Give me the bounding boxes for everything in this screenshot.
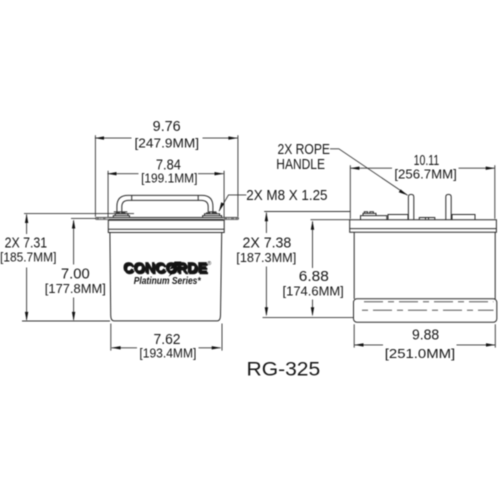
- dim 9.88 extension lines: [354, 324, 495, 347]
- svg-text:6.88: 6.88: [299, 269, 329, 285]
- dim 7.00 arrows: [72, 219, 75, 321]
- dim 7.62 line: [112, 347, 221, 349]
- bottom ref line right view: [263, 317, 354, 319]
- body sides: [354, 232, 495, 299]
- dim 2X 7.31 arrows: [25, 214, 28, 321]
- dim 7.84 extension lines: [108, 171, 224, 218]
- svg-text:CONCORDE: CONCORDE: [123, 261, 207, 277]
- dim 7.62 arrows: [112, 346, 221, 349]
- dim 7.84 line: [107, 173, 223, 175]
- svg-text:2X ROPE: 2X ROPE: [278, 142, 331, 158]
- CONCORDE logo: [123, 260, 211, 287]
- dim 7.62 extension lines: [111, 324, 222, 351]
- svg-text:[256.7MM]: [256.7MM]: [394, 166, 456, 181]
- dim 2X 7.38 top ref line: [264, 211, 350, 213]
- dim 10.11 line: [350, 167, 495, 169]
- dim 9.76 line: [95, 137, 238, 139]
- label dash-dot lines: [364, 301, 494, 303]
- battery jar: [110, 233, 222, 321]
- dim 2X 7.38 line: [265, 213, 267, 315]
- dim 9.88 arrows: [354, 343, 495, 346]
- svg-text:[199.1MM]: [199.1MM]: [141, 171, 197, 186]
- dim 9.76 extension lines: [95, 135, 238, 217]
- dim 2X 7.31 top ref line: [24, 213, 134, 215]
- lid seam: [350, 228, 497, 230]
- vent cap left: [388, 215, 408, 220]
- dim 6.88 line: [312, 222, 314, 315]
- dim 10.11 extension lines: [350, 165, 495, 219]
- leader 2X ROPE HANDLE: [330, 149, 408, 196]
- svg-text:[251.0MM]: [251.0MM]: [385, 346, 455, 361]
- rope handle post left: [408, 194, 413, 219]
- svg-text:[187.3MM]: [187.3MM]: [236, 250, 296, 265]
- carry handle: [114, 195, 217, 212]
- dim 6.88 arrows: [311, 221, 314, 317]
- svg-text:9.88: 9.88: [412, 327, 439, 343]
- dim 6.88 top ref line: [311, 219, 351, 221]
- svg-text:®: ®: [207, 260, 211, 267]
- bottom ref line left view: [22, 320, 110, 322]
- terminal right (front view): [203, 213, 222, 218]
- battery flange band: [96, 218, 239, 220]
- svg-text:[193.4MM]: [193.4MM]: [139, 346, 196, 361]
- battery cover (lid): [108, 220, 224, 232]
- svg-text:[247.9MM]: [247.9MM]: [135, 136, 200, 151]
- svg-text:[177.8MM]: [177.8MM]: [45, 281, 106, 296]
- dim 7.84 arrows: [107, 172, 223, 175]
- dim 10.11 arrows: [350, 167, 495, 170]
- svg-text:9.76: 9.76: [153, 119, 181, 135]
- leader 2X M8 X 1.25: [219, 195, 246, 211]
- vent cap right: [452, 215, 475, 220]
- lid (side view): [350, 220, 497, 233]
- svg-text:[185.7MM]: [185.7MM]: [0, 250, 56, 265]
- left flange tab (gray): [96, 218, 109, 220]
- svg-text:RG-325: RG-325: [247, 358, 321, 380]
- cover seam line: [108, 228, 224, 230]
- dim 7.00 line: [73, 221, 75, 320]
- rope handle post right: [446, 194, 451, 219]
- dim 7.00 top ref line: [71, 217, 96, 219]
- svg-text:2X M8 X 1.25: 2X M8 X 1.25: [246, 188, 327, 204]
- center bump: [419, 218, 435, 220]
- svg-text:HANDLE: HANDLE: [276, 157, 325, 173]
- base boot: [354, 299, 497, 323]
- dim 9.88 line: [354, 344, 495, 346]
- dim 2X 7.38 arrows: [265, 212, 268, 316]
- dim 2X 7.31 line: [26, 215, 28, 320]
- side terminal: [361, 212, 387, 220]
- right flange tab (gray): [223, 218, 238, 220]
- terminal left (front view): [113, 213, 129, 218]
- dim 9.76 arrows: [95, 136, 238, 139]
- svg-text:Platinum Series*: Platinum Series*: [134, 276, 202, 287]
- svg-text:[174.6MM]: [174.6MM]: [283, 284, 344, 299]
